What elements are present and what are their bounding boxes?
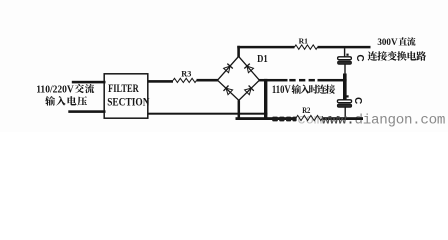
svg-text:D1: D1 xyxy=(257,53,268,65)
wire bridge right to link xyxy=(259,79,288,82)
diode D1c bottom-left xyxy=(226,88,233,95)
filter box FILTER SECTION xyxy=(104,74,148,118)
svg-text:SECTION: SECTION xyxy=(107,95,150,108)
wire filter bottom xyxy=(148,113,268,115)
dashed link segment 2 xyxy=(299,79,305,82)
resistor R2 xyxy=(296,115,323,120)
wire midpoint vertical xyxy=(343,74,347,101)
capacitor C2 plate positive xyxy=(337,100,351,103)
wire AC input lower-left xyxy=(68,110,105,113)
svg-text:R1: R1 xyxy=(299,36,308,45)
C1 polarity mark xyxy=(346,54,348,56)
svg-text:www.: www. xyxy=(322,112,355,128)
svg-text:C: C xyxy=(354,55,365,62)
wire bridge top lead xyxy=(237,46,240,58)
wire R3 to bridge xyxy=(197,79,219,82)
svg-text:FILTER: FILTER xyxy=(108,83,139,95)
svg-text:R3: R3 xyxy=(181,70,191,79)
capacitor C1 top lead xyxy=(344,48,345,57)
label AC input line2 xyxy=(45,96,55,106)
svg-text:110V: 110V xyxy=(272,82,291,96)
wire top rail left of R1 xyxy=(237,46,294,49)
wire top rail right of R1 xyxy=(318,46,371,49)
C2 polarity mark xyxy=(346,95,348,97)
diode D1a top-left xyxy=(224,66,230,73)
wire link to midpoint xyxy=(318,79,347,82)
svg-text:110/220V: 110/220V xyxy=(36,85,74,96)
wire bottom rail right xyxy=(323,117,364,120)
wire AC2 vertical xyxy=(264,79,267,120)
bridge rectifier D1 diamond xyxy=(218,56,260,100)
label 300V DC line2 xyxy=(368,51,378,61)
diode D1b top-right xyxy=(247,66,254,73)
capacitor C1 plate negative xyxy=(338,61,352,64)
resistor R3 xyxy=(173,78,197,82)
resistor R1 xyxy=(295,45,318,49)
capacitor C1 plate positive xyxy=(338,57,352,60)
svg-text:300V: 300V xyxy=(377,38,397,48)
wire AC input upper-left xyxy=(72,81,106,84)
wire C2 to bottom rail xyxy=(345,107,346,117)
wire bridge bottom lead xyxy=(238,100,241,119)
wire C1 to midpoint xyxy=(344,64,345,73)
wire bottom rail left xyxy=(236,117,297,120)
capacitor C2 plate negative xyxy=(337,104,351,107)
dashed link segment 3 xyxy=(309,79,315,82)
svg-text:C: C xyxy=(352,97,363,104)
wire filter to R3 xyxy=(148,80,173,83)
watermark fragment over bottom rail xyxy=(272,117,278,122)
diode D1d bottom-right xyxy=(245,88,252,95)
dashed link segment 1 xyxy=(289,79,295,82)
svg-text:R2: R2 xyxy=(302,106,310,115)
